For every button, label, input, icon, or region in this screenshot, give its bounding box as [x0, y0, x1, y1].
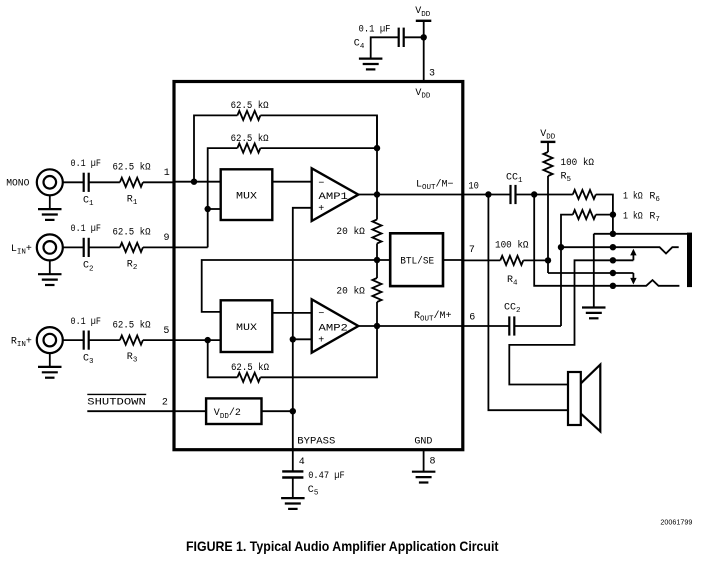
resistor 62.5k feedback1: [237, 111, 260, 120]
node line2 junction: [558, 244, 564, 250]
svg-text:AMP2: AMP2: [319, 323, 348, 334]
node line4 contact: [610, 270, 616, 276]
resistor R6 1k: [573, 190, 596, 199]
svg-text:−: −: [318, 309, 324, 320]
wire bottom feedback left leg: [208, 340, 238, 377]
wire 20k top lead: [376, 115, 378, 219]
svg-text:+: +: [318, 336, 324, 347]
wire C4 right lead: [404, 36, 423, 38]
wire pin 1 input line: [174, 181, 221, 183]
mux MUX1: [221, 169, 273, 220]
wire speaker bottom lead: [488, 195, 568, 411]
wire C5 to ground: [292, 478, 294, 498]
svg-text:0.1 µF: 0.1 µF: [71, 317, 101, 328]
ground at LIN jack: [38, 274, 62, 285]
node AMP2 plus junction: [290, 336, 296, 342]
wire 20k middle join: [376, 244, 378, 279]
resistor 62.5k feedback2: [237, 144, 260, 153]
wire pin 7 to R4: [463, 259, 501, 261]
wire R5 down to pin7 junction: [547, 176, 549, 273]
svg-text:0.1 µF: 0.1 µF: [359, 25, 391, 36]
wire jack line2 ring contact: [561, 247, 679, 253]
resistor R1 62.5k: [120, 178, 143, 187]
svg-text:LOUT/M−: LOUT/M−: [416, 179, 454, 193]
svg-text:GND: GND: [414, 437, 432, 448]
svg-text:0.1 µF: 0.1 µF: [71, 224, 101, 235]
node CC1 output junction: [531, 191, 537, 197]
svg-text:1 kΩ: 1 kΩ: [623, 190, 643, 202]
svg-text:62.5 kΩ: 62.5 kΩ: [231, 133, 269, 145]
svg-text:MONO: MONO: [6, 179, 29, 190]
capacitor CC2: [509, 316, 514, 335]
svg-text:8: 8: [430, 457, 436, 468]
svg-text:ROUT/M+: ROUT/M+: [414, 310, 452, 324]
ground at jack: [582, 308, 606, 319]
node bypass junction: [290, 408, 296, 414]
svg-text:100 kΩ: 100 kΩ: [561, 157, 595, 169]
op-amp AMP1: [312, 168, 359, 221]
wire feedback2 right lead: [260, 147, 377, 149]
IC boundary box U1: [174, 82, 463, 450]
wire resistor to pin 1: [143, 181, 174, 183]
wire pin 6 to CC2: [463, 325, 509, 327]
svg-text:2: 2: [162, 398, 168, 409]
svg-text:100 kΩ: 100 kΩ: [495, 240, 529, 252]
wire resistor to pin 5: [143, 339, 174, 341]
wire MUX1 lower input stub: [208, 208, 221, 210]
svg-text:MUX: MUX: [236, 323, 257, 334]
node speaker branch junction: [485, 191, 491, 197]
wire pin 5 input line: [174, 339, 221, 341]
wire feedback1 right leg: [260, 115, 377, 148]
node R4/R5/pin7 junction: [545, 257, 551, 263]
wire MUX2 output: [272, 312, 311, 314]
resistor 20k lower: [372, 278, 381, 302]
svg-text:BTL/SE: BTL/SE: [400, 255, 434, 267]
resistor R7 1k: [573, 210, 596, 219]
svg-text:5: 5: [163, 326, 169, 337]
capacitor C3 0.1uF: [84, 331, 89, 350]
wire AMP1 output to pin 10: [358, 194, 462, 196]
wire jack line5 tip contact: [534, 195, 679, 286]
switch wiper arrow up: [632, 254, 634, 260]
svg-text:1: 1: [164, 168, 170, 179]
wire CC2 up to line2: [515, 325, 561, 327]
wire jack stem: [49, 195, 51, 209]
wire pin 9 input line: [174, 246, 208, 248]
wire SHUTDOWN line: [87, 410, 206, 412]
resistor 62.5k bottom feedback: [237, 373, 260, 382]
wire jack line1 sleeve: [594, 233, 688, 235]
svg-text:−: −: [318, 178, 324, 189]
wire jack ground stem: [593, 234, 595, 307]
wire cap to resistor: [89, 339, 120, 341]
svg-text:62.5 kΩ: 62.5 kΩ: [231, 100, 269, 112]
capacitor C5 0.47uF: [282, 471, 303, 477]
wire R6 right leg down: [596, 195, 613, 234]
svg-text:FIGURE 1. Typical Audio Amplif: FIGURE 1. Typical Audio Amplifier Applic…: [186, 538, 499, 554]
svg-text:62.5 kΩ: 62.5 kΩ: [231, 362, 269, 374]
input jack RIN: [37, 327, 63, 353]
wire bypass vertical to C5: [292, 339, 294, 471]
wire jack to cap: [63, 181, 84, 183]
wire BTL/SE control line: [202, 260, 391, 312]
svg-text:62.5 kΩ: 62.5 kΩ: [113, 162, 151, 174]
capacitor CC1: [511, 185, 516, 204]
node feedback2/vertical junction: [374, 145, 380, 151]
wire R7 left leg down to line2: [561, 215, 573, 326]
wire R4 to junction: [523, 259, 548, 261]
wire AMP1 plus input: [293, 208, 312, 339]
svg-text:SHUTDOWN: SHUTDOWN: [87, 398, 146, 409]
wire GND pin stem: [423, 451, 425, 472]
wire C4 left lead to ground: [371, 37, 398, 58]
ground at C5: [281, 498, 305, 509]
resistor R5 100k: [543, 152, 552, 176]
wire jack to cap: [63, 246, 84, 248]
wire pin 3 stem: [423, 37, 425, 81]
wire pin 10 to CC1: [463, 194, 511, 196]
wire cap to resistor: [89, 246, 120, 248]
input jack MONO: [37, 169, 63, 195]
wire cap to resistor: [89, 181, 120, 183]
VDD supply top: [416, 20, 432, 22]
capacitor C4 0.1uF: [399, 28, 404, 47]
node AMP1 output junction: [374, 191, 380, 197]
node BTL junction: [374, 257, 380, 263]
svg-text:6: 6: [469, 312, 475, 323]
svg-text:0.1 µF: 0.1 µF: [71, 159, 101, 170]
svg-text:+: +: [318, 204, 324, 215]
svg-text:9: 9: [164, 233, 170, 244]
svg-text:4: 4: [299, 457, 305, 468]
capacitor C2 0.1uF: [84, 238, 89, 257]
logic box BTL/SE: [390, 233, 443, 286]
node line5 contact: [610, 283, 616, 289]
resistor R2 62.5k: [120, 243, 143, 252]
node pin5/feedback junction: [205, 337, 211, 343]
svg-text:20 kΩ: 20 kΩ: [336, 226, 365, 238]
ground at GND pin: [412, 472, 436, 483]
svg-text:7: 7: [469, 245, 475, 256]
resistor 20k upper: [372, 220, 381, 244]
node line3 contact: [610, 257, 616, 263]
svg-text:62.5 kΩ: 62.5 kΩ: [113, 227, 151, 239]
resistor R3 62.5k: [120, 336, 143, 345]
wire VDD stem: [423, 21, 425, 38]
node line2 contact: [610, 244, 616, 250]
node MUX1 lower input junction: [205, 206, 211, 212]
input jack LIN: [37, 234, 63, 260]
wire jack stem: [49, 353, 51, 367]
wire MUX1 output: [272, 181, 311, 183]
wire feedback R left leg: [194, 115, 237, 181]
logic box VDD/2: [206, 398, 261, 424]
wire feedback2 left leg: [208, 148, 238, 247]
svg-text:10: 10: [468, 182, 479, 193]
jack body bar: [687, 233, 692, 288]
resistor R4 100k: [500, 256, 523, 265]
wire VDD to R5: [547, 142, 549, 152]
wire AMP2 output to pin 6: [358, 325, 462, 327]
wire bottom feedback right leg: [260, 326, 377, 377]
node VDD/C4 junction: [421, 34, 427, 40]
wire jack stem: [49, 260, 51, 274]
node AMP2 output junction: [374, 323, 380, 329]
svg-text:BYPASS: BYPASS: [297, 437, 335, 448]
svg-text:1 kΩ: 1 kΩ: [623, 211, 643, 223]
wire CC1 to R6: [516, 194, 573, 196]
wire R7 right lead: [596, 214, 613, 216]
wire jack to cap: [63, 339, 84, 341]
wire 20k bottom lead: [376, 302, 378, 326]
switch wiper arrow down: [632, 273, 634, 279]
wire resistor to pin 9: [143, 246, 174, 248]
capacitor C1 0.1uF: [84, 173, 89, 192]
svg-text:20 kΩ: 20 kΩ: [336, 286, 365, 298]
speaker LS1: [568, 372, 581, 425]
node R7 right junction: [610, 211, 616, 217]
wire jack line4 sense: [548, 272, 633, 274]
wire pin 7 inside: [443, 259, 463, 261]
svg-text:20061799: 20061799: [660, 518, 692, 527]
mux MUX2: [221, 300, 273, 352]
wire VDD/2 output: [262, 410, 293, 412]
node feedback1 junction: [191, 179, 197, 185]
ground at MONO jack: [38, 209, 62, 220]
svg-text:MUX: MUX: [236, 192, 257, 203]
op-amp AMP2: [312, 299, 359, 352]
wire jack line3 sense: [509, 260, 633, 384]
VDD supply right: [541, 141, 556, 143]
svg-text:AMP1: AMP1: [319, 192, 348, 203]
node line1 contact: [610, 231, 616, 237]
wire AMP2 plus input stub: [293, 338, 312, 340]
ground at C4: [359, 59, 383, 70]
svg-text:0.47 µF: 0.47 µF: [308, 471, 345, 482]
ground at RIN jack: [38, 367, 62, 378]
svg-text:62.5 kΩ: 62.5 kΩ: [113, 319, 151, 331]
svg-text:3: 3: [429, 69, 435, 80]
